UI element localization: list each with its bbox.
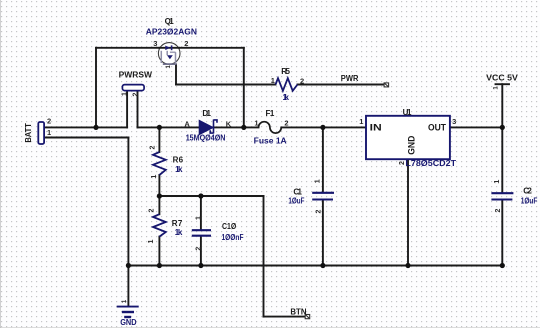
svg-text:Q1: Q1 bbox=[165, 17, 175, 26]
wire PWRSW leg pin2 bbox=[137, 90, 139, 127]
fuse F1 body bbox=[259, 122, 282, 133]
VCC power bar bbox=[496, 83, 510, 85]
wire C2 bottom bbox=[501, 200, 503, 265]
wire C1 top bbox=[322, 127, 324, 192]
svg-text:R7: R7 bbox=[172, 219, 183, 228]
resistor R7 bbox=[153, 214, 166, 236]
faint bottom edge artifact line bbox=[0, 327, 540, 328]
transistor Q1 bbox=[158, 43, 180, 65]
svg-text:C1Ø: C1Ø bbox=[222, 222, 236, 231]
svg-text:AP23Ø2AGN: AP23Ø2AGN bbox=[146, 28, 197, 37]
svg-text:2: 2 bbox=[495, 209, 502, 213]
capacitor C1 plates bbox=[312, 193, 334, 200]
wire R7 top bbox=[158, 196, 160, 214]
wire C10 bottom bbox=[200, 237, 202, 266]
wire C1 bottom bbox=[322, 200, 324, 265]
regulator U1 box bbox=[366, 116, 450, 159]
svg-text:PWR: PWR bbox=[341, 74, 359, 83]
svg-text:2: 2 bbox=[315, 209, 322, 213]
svg-text:PWRSW: PWRSW bbox=[119, 71, 153, 80]
svg-text:2: 2 bbox=[284, 119, 288, 128]
BTN flag square bbox=[305, 315, 310, 319]
wire Q1 drain vertical bbox=[243, 48, 245, 128]
svg-text:1: 1 bbox=[254, 119, 258, 128]
wire GND symbol drop bbox=[127, 266, 129, 306]
wire R6 top bbox=[158, 127, 160, 152]
svg-text:1: 1 bbox=[148, 239, 155, 243]
svg-text:2: 2 bbox=[184, 39, 188, 48]
wire BATT pin1 horizontal bbox=[44, 137, 128, 139]
wire R7 bottom bbox=[158, 237, 160, 266]
svg-text:C2: C2 bbox=[523, 187, 532, 196]
switch PWRSW body bbox=[122, 85, 144, 91]
svg-text:1: 1 bbox=[359, 117, 363, 126]
svg-text:U1: U1 bbox=[403, 108, 412, 117]
svg-text:GND: GND bbox=[407, 135, 417, 155]
faint left edge artifact line bbox=[0, 0, 2, 328]
svg-text:1: 1 bbox=[151, 175, 158, 179]
svg-text:1: 1 bbox=[271, 76, 275, 85]
PWR flag square bbox=[384, 83, 389, 87]
wire BATT pin2 to switch bbox=[44, 126, 127, 128]
svg-text:C1: C1 bbox=[293, 187, 302, 196]
svg-text:1k: 1k bbox=[283, 93, 290, 102]
wire Q1 gate vertical bbox=[175, 65, 177, 85]
wire left vertical BATT+ to top rail bbox=[95, 48, 97, 128]
wire VCC stub bbox=[501, 84, 503, 127]
svg-text:BTN: BTN bbox=[290, 307, 306, 316]
svg-text:OUT: OUT bbox=[428, 123, 446, 133]
svg-text:2: 2 bbox=[150, 145, 157, 149]
wire U1 GND pin2 drop bbox=[407, 160, 409, 266]
svg-text:A: A bbox=[184, 120, 190, 129]
svg-text:R6: R6 bbox=[173, 155, 184, 164]
svg-text:Fuse 1A: Fuse 1A bbox=[254, 136, 287, 145]
svg-text:1: 1 bbox=[494, 180, 501, 184]
svg-text:D1: D1 bbox=[202, 109, 211, 118]
wire BTN horizontal bbox=[264, 316, 306, 318]
svg-text:1ØØnF: 1ØØnF bbox=[222, 233, 244, 242]
wire gate to R5 bbox=[176, 84, 276, 86]
svg-text:2: 2 bbox=[300, 76, 304, 85]
svg-text:1k: 1k bbox=[175, 228, 183, 237]
wire top rail from Q1 source corner to drain corner bbox=[96, 47, 244, 49]
svg-text:F1: F1 bbox=[266, 109, 275, 118]
svg-text:1: 1 bbox=[195, 216, 202, 220]
svg-text:1ØuF: 1ØuF bbox=[521, 197, 538, 206]
svg-text:L78Ø5CD2T: L78Ø5CD2T bbox=[405, 159, 456, 168]
resistor R6 bbox=[153, 152, 166, 175]
svg-text:IN: IN bbox=[370, 123, 382, 133]
capacitor C2 plates bbox=[491, 193, 513, 199]
svg-text:3: 3 bbox=[153, 39, 157, 48]
svg-text:BATT: BATT bbox=[24, 123, 33, 143]
svg-text:2: 2 bbox=[47, 116, 51, 125]
svg-text:1: 1 bbox=[315, 179, 322, 183]
svg-text:VCC 5V: VCC 5V bbox=[486, 73, 518, 82]
diode D1 bbox=[199, 120, 217, 135]
svg-text:1: 1 bbox=[121, 92, 128, 96]
capacitor C10 plates bbox=[192, 230, 211, 236]
svg-text:1ØuF: 1ØuF bbox=[288, 197, 304, 206]
svg-text:15MQØ4ØN: 15MQØ4ØN bbox=[186, 134, 226, 143]
svg-text:K: K bbox=[226, 120, 232, 129]
wire PWRSW leg pin1 bbox=[126, 90, 128, 127]
wire main rail switch to fuse bbox=[138, 126, 259, 128]
wire C10 top bbox=[200, 196, 202, 229]
svg-text:2: 2 bbox=[195, 247, 202, 251]
svg-text:2: 2 bbox=[149, 209, 156, 213]
svg-text:1k: 1k bbox=[175, 165, 183, 174]
svg-text:R5: R5 bbox=[281, 67, 290, 76]
wire C2 top bbox=[501, 127, 503, 192]
wire R6 bottom bbox=[158, 175, 160, 196]
connector BATT bbox=[38, 122, 44, 144]
wire BATT pin1 vertical to ground rail bbox=[127, 138, 129, 266]
resistor R5 bbox=[276, 78, 298, 91]
wire fuse to U1 IN pin1 bbox=[281, 126, 366, 128]
wire node R6 R7 C10 to BTN bbox=[159, 195, 263, 197]
ground symbol bars bbox=[117, 307, 139, 317]
svg-text:3: 3 bbox=[452, 117, 456, 126]
svg-text:1: 1 bbox=[47, 128, 51, 137]
svg-text:GND: GND bbox=[120, 318, 137, 327]
wire bottom ground rail bbox=[128, 265, 502, 267]
svg-text:2: 2 bbox=[133, 92, 140, 96]
wire BTN vertical bbox=[263, 196, 265, 317]
wire R5 to PWR flag bbox=[298, 84, 385, 86]
wire U1 OUT to VCC node bbox=[450, 126, 502, 128]
